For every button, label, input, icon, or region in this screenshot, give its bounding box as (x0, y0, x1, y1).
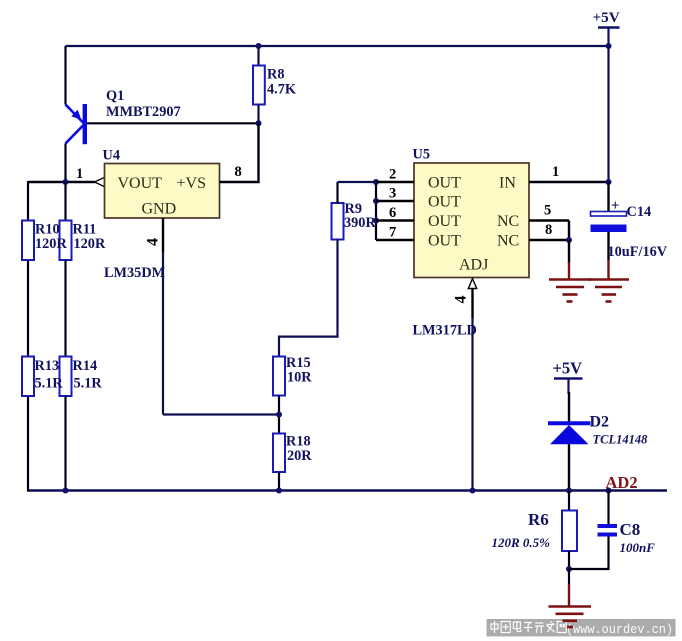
resistor R6 (492, 510, 578, 551)
wire down to R10 (27, 181, 29, 221)
junction pin1/+5V (606, 179, 612, 185)
capacitor C14 (591, 182, 668, 260)
wire R8 top stem (257, 46, 259, 66)
R13 labels (35, 358, 64, 392)
svg-text:100nF: 100nF (620, 540, 656, 555)
svg-text:4: 4 (453, 296, 470, 304)
svg-text:VOUT: VOUT (118, 175, 163, 192)
resistor R9 (332, 201, 377, 240)
R14 labels (73, 358, 103, 392)
svg-text:NC: NC (497, 233, 519, 250)
svg-text:10R: 10R (287, 370, 312, 386)
wire U5 pin5 (529, 219, 569, 222)
svg-text:6: 6 (389, 205, 396, 221)
junction R6/C8 (566, 566, 572, 572)
junction at R8 top (256, 43, 262, 49)
resistor R13 (22, 357, 34, 397)
watermark bar (487, 619, 676, 636)
wire R14 down to bottom rail (64, 396, 66, 491)
R11 labels (73, 222, 106, 253)
svg-text:R8: R8 (267, 67, 284, 83)
pin 3 stub (376, 200, 414, 203)
svg-text:+5V: +5V (593, 9, 620, 26)
wire C14 bottom to ground (607, 232, 609, 260)
pin 7 stub (376, 239, 414, 242)
pin 2 stub (376, 181, 414, 184)
wire +5V vertical to U5 pin1 (607, 46, 609, 182)
svg-text:GND: GND (142, 201, 177, 218)
op-amp U4 LM35 box (103, 148, 220, 219)
wire R8 bottom stem (257, 105, 259, 124)
wire R11 to R14 (64, 260, 66, 357)
wire R9 top stem (336, 182, 338, 203)
svg-text:LM317LD: LM317LD (413, 323, 477, 339)
wire U4 pin1 row (28, 181, 95, 183)
wire U4 pin8 (220, 123, 259, 182)
svg-text:5.1R: 5.1R (35, 376, 64, 392)
power +5V (top) (593, 9, 620, 46)
wire C8 bottom to R6 (569, 537, 609, 570)
wire pin8 down to ground (568, 240, 570, 262)
junction C8/rail (606, 488, 612, 494)
junction bus pin2 (373, 179, 379, 185)
svg-text:NC: NC (497, 213, 519, 230)
svg-text:8: 8 (235, 164, 242, 180)
wire R18 bottom stem (278, 472, 280, 491)
svg-text:4: 4 (145, 238, 162, 246)
wire bottom AD2 rail (28, 489, 667, 491)
watermark CJK glyphs (simplified strokes) (491, 621, 566, 633)
pin1 input triangle (95, 177, 105, 186)
svg-text:U5: U5 (413, 147, 430, 163)
wire R13 down to bottom rail (27, 396, 29, 492)
svg-text:MMBT2907: MMBT2907 (106, 104, 181, 120)
wire top rail (66, 45, 609, 47)
junction bus pin6 (373, 218, 379, 224)
svg-text:R6: R6 (528, 510, 549, 529)
wire pin5 to pin8 vertical (568, 221, 570, 241)
wire R15 to R18 (278, 396, 280, 434)
junction D2/rail (566, 488, 572, 494)
capacitor C8 (598, 491, 656, 556)
svg-text:OUT: OUT (428, 233, 461, 250)
svg-text:OUT: OUT (428, 175, 461, 192)
svg-text:+5V: +5V (553, 359, 583, 378)
svg-text:U4: U4 (103, 148, 120, 164)
junction ADJ/rail (470, 488, 476, 494)
resistor R11 (60, 221, 72, 261)
junction pin1/collector (63, 179, 69, 185)
svg-text:7: 7 (389, 225, 396, 241)
svg-text:AD2: AD2 (606, 473, 638, 492)
wire R9 bottom to R15 (279, 240, 338, 357)
junction pin8 (566, 237, 572, 243)
wire rail to R6 (568, 491, 570, 511)
junction R14/rail (63, 488, 69, 494)
pin 6 stub (376, 219, 414, 222)
svg-text:D2: D2 (590, 414, 610, 431)
transistor Q1 MMBT2907 (66, 88, 181, 144)
svg-text:C14: C14 (627, 204, 652, 220)
wire ADJ down to AD2 rail (471, 289, 473, 319)
wire U5 pin8 (529, 239, 569, 242)
svg-text:TCL14148: TCL14148 (593, 433, 649, 447)
wire U5 pin1 to +5V rail (529, 181, 609, 183)
svg-text:120R 0.5%: 120R 0.5% (492, 535, 551, 550)
U5 ADJ pin arrow (468, 279, 476, 289)
wire left vertical upper (emitter) (64, 46, 66, 105)
wire down to R11 (64, 182, 66, 221)
svg-text:120R: 120R (74, 236, 106, 252)
svg-text:+: + (611, 198, 620, 214)
resistor R15 (273, 355, 312, 396)
wire R6 bottom (568, 551, 570, 569)
wire U4 pin4 down (162, 218, 164, 252)
ground (C14) (588, 280, 629, 302)
wire pins bus vertical (375, 182, 377, 240)
svg-text:Q1: Q1 (106, 88, 124, 104)
resistor R18 (273, 434, 312, 473)
svg-text:10uF/16V: 10uF/16V (608, 244, 668, 260)
power +5V (D2 branch) (553, 359, 583, 395)
wire left vertical lower (collector) (64, 144, 66, 183)
svg-text:1: 1 (76, 166, 83, 182)
svg-text:5.1R: 5.1R (74, 376, 103, 392)
op-amp U5 LM317 box (413, 147, 530, 278)
svg-text:1: 1 (552, 164, 559, 180)
wire Q1 base to R8 bottom (86, 122, 259, 124)
svg-text:2: 2 (389, 167, 396, 183)
junction at +5V rail (606, 43, 612, 49)
wire R10 to R13 (27, 260, 29, 357)
wire +5V to D2 cathode (568, 392, 570, 422)
resistor R8 (253, 66, 297, 105)
svg-text:8: 8 (545, 222, 552, 238)
svg-text:LM35DM: LM35DM (104, 265, 166, 281)
svg-text:R13: R13 (35, 358, 60, 374)
svg-text:120R: 120R (35, 236, 67, 252)
junction at R8 bottom (256, 120, 262, 126)
svg-text:OUT: OUT (428, 194, 461, 211)
wire R9 to U5 pin2 (338, 181, 377, 183)
svg-text:C8: C8 (620, 520, 641, 539)
svg-text:390R: 390R (344, 215, 376, 231)
svg-text:ADJ: ADJ (459, 257, 488, 274)
ground (U5 NC pins) (549, 280, 591, 302)
svg-text:5: 5 (544, 203, 551, 219)
R10 labels (35, 222, 67, 253)
svg-text:4.7K: 4.7K (267, 82, 297, 98)
junction pin4 wire (276, 412, 282, 418)
svg-text:IN: IN (499, 175, 516, 192)
svg-text:+VS: +VS (177, 175, 206, 192)
svg-text:OUT: OUT (428, 213, 461, 230)
junction bus pin3 (373, 198, 379, 204)
svg-text:3: 3 (389, 186, 396, 202)
svg-text:20R: 20R (287, 448, 312, 464)
diode D2 TCL14148 (548, 414, 648, 447)
wire R6 to ground (568, 569, 570, 584)
junction R18/rail (276, 488, 282, 494)
ground (R6/C8) (549, 607, 592, 628)
svg-text:R14: R14 (73, 358, 98, 374)
svg-text:(www.ourdev.cn): (www.ourdev.cn) (566, 623, 673, 637)
resistor R10 (22, 221, 34, 261)
wire D2 anode to AD2 rail (568, 444, 570, 490)
resistor R14 (60, 357, 72, 397)
